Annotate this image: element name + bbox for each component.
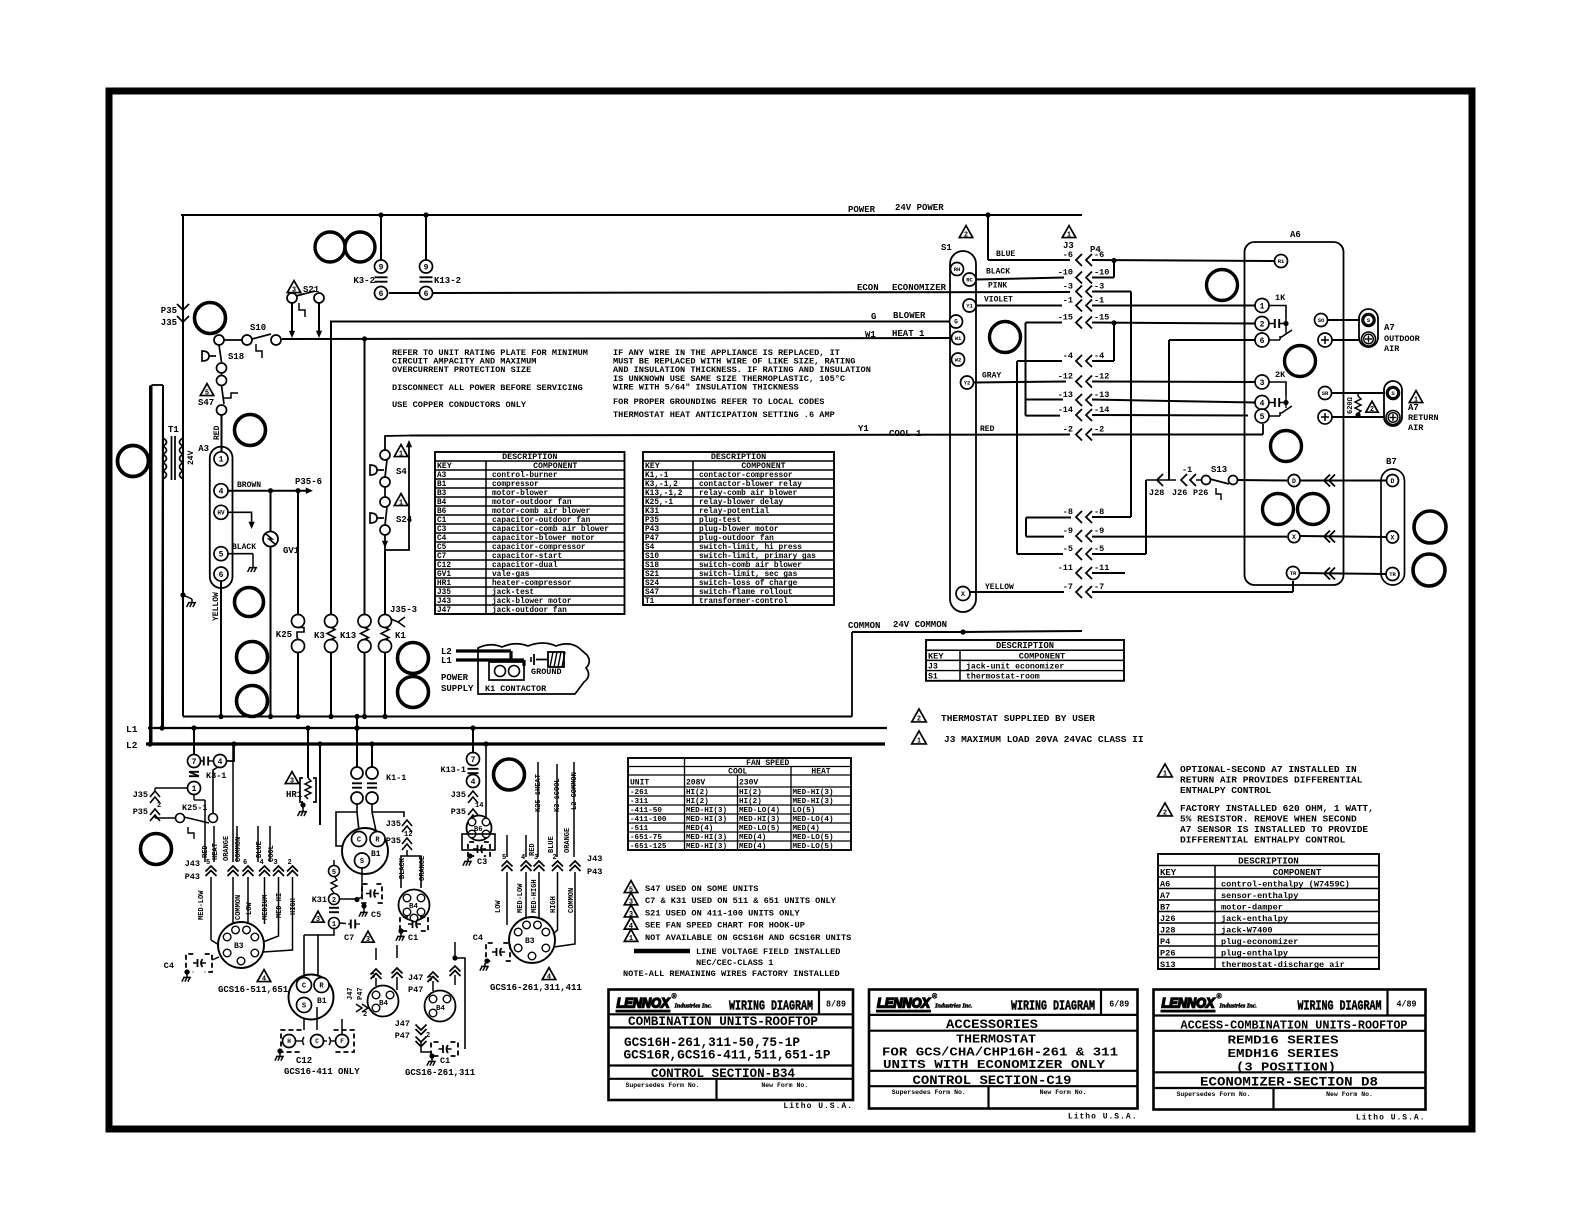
svg-text:HIGH: HIGH — [290, 898, 298, 915]
svg-text:MED-HI(3): MED-HI(3) — [686, 807, 727, 815]
svg-text:Industries Inc.: Industries Inc. — [674, 1003, 713, 1010]
svg-text:J47: J47 — [437, 607, 451, 615]
svg-text:USE COPPER CONDUCTORS ONLY: USE COPPER CONDUCTORS ONLY — [392, 400, 527, 410]
svg-text:capacitor-compressor: capacitor-compressor — [492, 544, 586, 552]
svg-text:-9: -9 — [1094, 526, 1104, 536]
svg-text:B3: B3 — [437, 490, 447, 498]
svg-text:plug-economizer: plug-economizer — [1221, 937, 1298, 947]
svg-text:C7 & K31 USED ON 511 & 651 UNI: C7 & K31 USED ON 511 & 651 UNITS ONLY — [645, 896, 837, 906]
svg-text:-15: -15 — [1094, 313, 1109, 323]
svg-text:1: 1 — [332, 921, 336, 929]
svg-text:jack-blower motor: jack-blower motor — [492, 598, 572, 606]
svg-text:HEAT: HEAT — [212, 843, 220, 860]
svg-text:L1: L1 — [441, 656, 452, 666]
svg-text:Y1: Y1 — [858, 424, 869, 434]
svg-text:J3 MAXIMUM LOAD 20VA 24VAC CLA: J3 MAXIMUM LOAD 20VA 24VAC CLASS II — [944, 734, 1144, 745]
svg-text:SR: SR — [1322, 390, 1329, 397]
svg-text:K3-1: K3-1 — [206, 771, 226, 781]
svg-text:switch-limit, primary gas: switch-limit, primary gas — [699, 553, 816, 561]
svg-text:B1: B1 — [437, 481, 447, 489]
svg-text:control-burner: control-burner — [492, 472, 558, 480]
svg-text:MED-HI(3): MED-HI(3) — [793, 789, 834, 797]
svg-text:2: 2 — [553, 854, 557, 862]
svg-text:HI(2): HI(2) — [739, 789, 762, 797]
svg-text:K13-1: K13-1 — [440, 765, 466, 775]
svg-text:WIRING DIAGRAM: WIRING DIAGRAM — [729, 999, 813, 1015]
svg-text:R1: R1 — [1278, 258, 1285, 265]
svg-text:HI(2): HI(2) — [686, 789, 709, 797]
svg-text:S21: S21 — [645, 571, 659, 579]
svg-text:L1: L1 — [126, 724, 138, 735]
svg-text:ECONOMIZER: ECONOMIZER — [892, 283, 947, 293]
svg-text:4/89: 4/89 — [1397, 1000, 1417, 1010]
svg-text:2: 2 — [426, 1032, 430, 1040]
svg-text:K13: K13 — [340, 631, 356, 641]
svg-text:J47: J47 — [408, 973, 423, 983]
svg-text:J26: J26 — [1172, 488, 1187, 498]
svg-text:C1: C1 — [437, 517, 447, 525]
svg-text:LENNOX: LENNOX — [1162, 995, 1217, 1011]
svg-text:S10: S10 — [250, 323, 266, 333]
svg-text:®: ® — [1217, 993, 1223, 1001]
svg-text:A3: A3 — [198, 444, 209, 454]
svg-text:TR: TR — [1389, 571, 1396, 578]
svg-text:7: 7 — [192, 758, 197, 767]
svg-text:switch-limit, hi press: switch-limit, hi press — [699, 544, 802, 552]
svg-text:SO: SO — [1318, 317, 1325, 324]
svg-text:ACCESSORIES: ACCESSORIES — [946, 1017, 1038, 1032]
svg-text:7: 7 — [471, 756, 476, 765]
svg-text:COMPONENT: COMPONENT — [1273, 868, 1322, 878]
svg-text:620Ω: 620Ω — [1347, 396, 1355, 414]
svg-text:J35: J35 — [437, 589, 451, 597]
svg-text:WIRE WITH 5/64" INSULATION THI: WIRE WITH 5/64" INSULATION THICKNESS — [613, 382, 799, 392]
svg-text:Industries Inc.: Industries Inc. — [1219, 1003, 1258, 1010]
svg-text:®: ® — [932, 993, 938, 1001]
svg-text:1: 1 — [1260, 302, 1265, 311]
svg-text:2: 2 — [1260, 320, 1265, 329]
svg-text:-7: -7 — [1063, 582, 1073, 592]
svg-text:LO(5): LO(5) — [793, 807, 816, 815]
svg-text:-311: -311 — [630, 798, 649, 806]
svg-text:K31: K31 — [645, 508, 659, 516]
svg-text:ACCESS-COMBINATION UNITS-ROOFT: ACCESS-COMBINATION UNITS-ROOFTOP — [1181, 1019, 1408, 1033]
svg-text:MED-LOW: MED-LOW — [517, 883, 525, 913]
svg-text:THERMOSTAT SUPPLIED BY USER: THERMOSTAT SUPPLIED BY USER — [941, 713, 1095, 724]
svg-text:6: 6 — [219, 571, 224, 580]
svg-text:COMMON: COMMON — [235, 837, 243, 862]
svg-text:GV1: GV1 — [437, 571, 451, 579]
svg-text:COMPONENT: COMPONENT — [1019, 651, 1065, 661]
svg-text:-1: -1 — [1063, 296, 1073, 306]
svg-text:S18: S18 — [645, 562, 659, 570]
svg-text:BLACK: BLACK — [232, 543, 256, 552]
svg-text:-7: -7 — [1094, 582, 1104, 592]
svg-text:MED-LO(5): MED-LO(5) — [739, 825, 780, 833]
svg-text:BLACK: BLACK — [986, 268, 1010, 277]
svg-text:RED: RED — [980, 425, 995, 434]
svg-text:sensor-enthalpy: sensor-enthalpy — [1221, 891, 1298, 901]
svg-text:2: 2 — [964, 231, 968, 239]
svg-text:motor-outdoor fan: motor-outdoor fan — [492, 499, 572, 507]
svg-text:B6: B6 — [474, 826, 482, 834]
svg-text:24V COMMON: 24V COMMON — [893, 620, 947, 630]
svg-text:K3-2: K3-2 — [353, 276, 375, 286]
svg-text:transformer-control: transformer-control — [699, 598, 788, 606]
svg-text:capacitor-start: capacitor-start — [492, 553, 562, 561]
svg-text:jack-unit economizer: jack-unit economizer — [966, 661, 1064, 671]
svg-text:G: G — [871, 312, 876, 322]
svg-text:A3: A3 — [437, 472, 447, 480]
svg-text:S47: S47 — [198, 398, 214, 408]
svg-text:DISCONNECT ALL POWER BEFORE SE: DISCONNECT ALL POWER BEFORE SERVICING — [392, 383, 583, 393]
svg-text:MED-HI(3): MED-HI(3) — [739, 816, 780, 824]
svg-text:RETURN AIR PROVIDES DIFFERENTI: RETURN AIR PROVIDES DIFFERENTIAL — [1180, 775, 1363, 786]
svg-text:1: 1 — [192, 785, 197, 794]
svg-text:C3: C3 — [437, 526, 447, 534]
svg-text:switch-comb air blower: switch-comb air blower — [699, 562, 802, 570]
svg-text:C: C — [357, 837, 361, 845]
svg-text:MED HI: MED HI — [276, 893, 284, 918]
svg-text:BROWN: BROWN — [237, 481, 261, 490]
svg-text:-12: -12 — [1058, 372, 1073, 382]
svg-text:COOL: COOL — [728, 768, 747, 777]
svg-text:GRAY: GRAY — [982, 372, 1001, 381]
svg-text:MED(4): MED(4) — [739, 843, 766, 851]
svg-text:RED: RED — [529, 843, 537, 856]
svg-text:RED: RED — [213, 425, 222, 440]
svg-text:-651-125: -651-125 — [630, 843, 667, 851]
svg-text:S1: S1 — [941, 243, 952, 253]
svg-text:2: 2 — [332, 897, 336, 905]
svg-text:COMPONENT: COMPONENT — [741, 462, 785, 471]
svg-text:K3: K3 — [314, 631, 325, 641]
svg-text:RC: RC — [966, 276, 973, 283]
svg-text:-651-75: -651-75 — [630, 834, 662, 842]
svg-text:1: 1 — [629, 935, 633, 943]
svg-text:208V: 208V — [686, 779, 705, 788]
svg-text:P35-6: P35-6 — [295, 477, 322, 487]
svg-text:K13,-1,2: K13,-1,2 — [645, 490, 683, 498]
svg-text:S18: S18 — [228, 352, 244, 362]
svg-text:GROUND: GROUND — [531, 667, 562, 677]
svg-text:-5: -5 — [1094, 544, 1104, 554]
svg-text:jack-test: jack-test — [492, 589, 534, 597]
svg-text:Litho U.S.A.: Litho U.S.A. — [783, 1102, 853, 1111]
svg-text:C12: C12 — [437, 562, 451, 570]
svg-text:Y2: Y2 — [964, 379, 971, 386]
svg-text:-4: -4 — [1094, 351, 1104, 361]
svg-text:C7: C7 — [344, 933, 354, 943]
svg-text:1: 1 — [917, 738, 921, 746]
svg-text:BLACK: BLACK — [399, 857, 407, 879]
svg-text:J47: J47 — [347, 987, 355, 1000]
svg-text:K13-2: K13-2 — [434, 276, 461, 286]
svg-text:MED-HI(3): MED-HI(3) — [686, 834, 727, 842]
svg-text:J43: J43 — [437, 598, 451, 606]
svg-text:motor-blower: motor-blower — [492, 490, 548, 498]
svg-text:MED-LO(4): MED-LO(4) — [793, 816, 834, 824]
svg-text:THERMOSTAT HEAT ANTICIPATION S: THERMOSTAT HEAT ANTICIPATION SETTING .6 … — [613, 410, 835, 420]
svg-text:TR: TR — [1290, 570, 1297, 577]
svg-text:COOL: COOL — [268, 845, 276, 862]
svg-text:KEY: KEY — [437, 462, 452, 471]
svg-text:4: 4 — [471, 778, 476, 787]
svg-text:S24: S24 — [645, 580, 659, 588]
svg-text:K3,-1,2: K3,-1,2 — [645, 481, 678, 489]
svg-text:relay-comb air blower: relay-comb air blower — [699, 490, 798, 498]
svg-text:vale-gas: vale-gas — [492, 571, 530, 579]
svg-text:New Form No.: New Form No. — [1040, 1089, 1087, 1096]
svg-text:5: 5 — [1260, 413, 1265, 422]
svg-text:COMMON: COMMON — [235, 895, 243, 920]
svg-text:WIRING DIAGRAM: WIRING DIAGRAM — [1298, 999, 1382, 1015]
svg-text:L2 COMMON: L2 COMMON — [571, 772, 579, 810]
svg-text:ORANGE: ORANGE — [564, 828, 572, 853]
svg-text:capacitor-comb air blower: capacitor-comb air blower — [492, 526, 609, 534]
svg-text:motor-comb air blower: motor-comb air blower — [492, 508, 591, 516]
svg-text:J43: J43 — [185, 859, 200, 869]
svg-text:J35: J35 — [133, 790, 148, 800]
svg-text:CONTROL SECTION-C19: CONTROL SECTION-C19 — [913, 1074, 1072, 1088]
svg-text:RED: RED — [202, 845, 210, 858]
svg-text:®: ® — [672, 993, 678, 1001]
svg-text:-10: -10 — [1058, 268, 1073, 278]
svg-text:BLUE: BLUE — [548, 836, 556, 853]
svg-text:C4: C4 — [164, 961, 174, 971]
svg-text:2: 2 — [917, 716, 921, 724]
svg-text:control-enthalpy (W7459C): control-enthalpy (W7459C) — [1221, 879, 1350, 889]
svg-text:12: 12 — [404, 831, 412, 839]
svg-text:5: 5 — [332, 869, 336, 877]
svg-text:MEDIUM: MEDIUM — [262, 895, 270, 920]
svg-text:4: 4 — [262, 975, 266, 983]
svg-text:-14: -14 — [1058, 405, 1073, 415]
svg-text:DESCRIPTION: DESCRIPTION — [502, 452, 557, 462]
svg-text:B6: B6 — [437, 508, 447, 516]
svg-text:L2: L2 — [126, 740, 138, 751]
svg-text:UNIT: UNIT — [630, 779, 649, 788]
svg-text:WIRING DIAGRAM: WIRING DIAGRAM — [1011, 999, 1095, 1015]
svg-text:-1: -1 — [1094, 296, 1104, 306]
svg-text:MED(4): MED(4) — [793, 825, 820, 833]
svg-text:W1: W1 — [865, 330, 876, 340]
svg-text:2K: 2K — [1275, 370, 1286, 380]
svg-text:J43: J43 — [587, 854, 602, 864]
svg-text:B4: B4 — [437, 499, 447, 507]
svg-text:MED-HIGH: MED-HIGH — [531, 879, 539, 913]
svg-text:S: S — [302, 1003, 306, 1011]
svg-text:MED-LO(4): MED-LO(4) — [739, 807, 780, 815]
svg-text:T1: T1 — [168, 425, 179, 435]
svg-text:S4: S4 — [396, 467, 407, 477]
svg-text:REMD16 SERIES: REMD16 SERIES — [1228, 1034, 1339, 1048]
svg-text:-2: -2 — [1063, 425, 1073, 435]
svg-text:-411-50: -411-50 — [630, 807, 662, 815]
svg-text:THERMOSTAT: THERMOSTAT — [956, 1033, 1036, 1047]
svg-text:8/89: 8/89 — [826, 1000, 846, 1010]
svg-text:A7: A7 — [1384, 323, 1395, 333]
svg-text:K31: K31 — [312, 895, 327, 905]
svg-text:OUTDOOR: OUTDOOR — [1384, 334, 1421, 344]
svg-text:K1,-1: K1,-1 — [645, 472, 669, 480]
svg-text:P47: P47 — [395, 1031, 410, 1041]
svg-text:KEY: KEY — [645, 462, 660, 471]
svg-text:SEE FAN SPEED CHART FOR HOOK-U: SEE FAN SPEED CHART FOR HOOK-UP — [645, 921, 805, 931]
svg-text:5: 5 — [219, 551, 224, 560]
svg-text:P47: P47 — [408, 985, 423, 995]
svg-text:HEAT 1: HEAT 1 — [892, 329, 925, 339]
svg-text:DESCRIPTION: DESCRIPTION — [1238, 855, 1299, 866]
svg-text:HI(2): HI(2) — [686, 798, 709, 806]
svg-text:POWER: POWER — [441, 673, 469, 683]
svg-text:2: 2 — [363, 1011, 367, 1019]
svg-text:MED-LOW: MED-LOW — [198, 890, 206, 920]
svg-text:K3-1COOL: K3-1COOL — [554, 778, 562, 812]
svg-text:J26: J26 — [1160, 914, 1175, 924]
svg-text:2: 2 — [157, 802, 161, 810]
svg-text:6/89: 6/89 — [1109, 1000, 1129, 1010]
svg-text:HV: HV — [217, 509, 225, 516]
svg-text:DESCRIPTION: DESCRIPTION — [996, 641, 1054, 651]
svg-text:1K: 1K — [1275, 293, 1286, 303]
svg-text:H: H — [287, 1038, 291, 1045]
svg-text:LOW: LOW — [246, 902, 254, 915]
svg-text:A7: A7 — [1408, 403, 1419, 413]
svg-text:D: D — [1391, 478, 1395, 485]
svg-text:S1: S1 — [928, 673, 938, 682]
svg-text:-11: -11 — [1058, 563, 1073, 573]
svg-text:230V: 230V — [739, 779, 758, 788]
svg-text:C4: C4 — [473, 933, 483, 943]
svg-text:LENNOX: LENNOX — [877, 995, 932, 1011]
svg-text:NEC/CEC-CLASS 1: NEC/CEC-CLASS 1 — [696, 958, 773, 968]
svg-text:VIOLET: VIOLET — [984, 296, 1013, 305]
svg-text:C3: C3 — [477, 857, 487, 867]
svg-text:FOR PROPER GROUNDING REFER TO: FOR PROPER GROUNDING REFER TO LOCAL CODE… — [613, 397, 824, 407]
svg-text:NOTE-ALL REMAINING WIRES FACTO: NOTE-ALL REMAINING WIRES FACTORY INSTALL… — [623, 969, 840, 979]
svg-text:Litho U.S.A.: Litho U.S.A. — [1356, 1114, 1426, 1123]
svg-text:YELLOW: YELLOW — [985, 583, 1014, 592]
svg-text:ECON: ECON — [857, 283, 879, 293]
svg-text:plug-blower motor: plug-blower motor — [699, 526, 779, 534]
svg-text:ENTHALPY CONTROL: ENTHALPY CONTROL — [1180, 785, 1272, 796]
svg-text:A6: A6 — [1290, 230, 1301, 240]
svg-text:2: 2 — [1163, 810, 1167, 818]
svg-text:J35: J35 — [386, 819, 401, 829]
svg-text:C1: C1 — [408, 933, 418, 943]
svg-text:P43: P43 — [645, 526, 659, 534]
svg-text:-5: -5 — [1063, 544, 1073, 554]
svg-text:1: 1 — [1067, 231, 1071, 239]
svg-text:K25-1: K25-1 — [182, 803, 208, 813]
svg-text:Supersedes Form No.: Supersedes Form No. — [1176, 1091, 1250, 1098]
svg-text:ECONOMIZER-SECTION D8: ECONOMIZER-SECTION D8 — [1200, 1076, 1378, 1090]
svg-text:KEY: KEY — [1160, 868, 1177, 878]
svg-text:P35: P35 — [645, 517, 659, 525]
svg-text:OPTIONAL-SECOND A7 INSTALLED I: OPTIONAL-SECOND A7 INSTALLED IN — [1180, 764, 1357, 775]
svg-text:A6: A6 — [1160, 879, 1170, 889]
svg-text:BLUE: BLUE — [996, 250, 1015, 259]
svg-text:B4: B4 — [379, 1000, 389, 1008]
svg-text:NOT AVAILABLE ON GCS16H AND GC: NOT AVAILABLE ON GCS16H AND GCS16R UNITS — [645, 933, 851, 943]
svg-text:K1 CONTACTOR: K1 CONTACTOR — [485, 684, 547, 694]
svg-text:relay-potential: relay-potential — [699, 508, 770, 516]
svg-text:Industries Inc.: Industries Inc. — [934, 1003, 973, 1010]
svg-text:switch-flame rollout: switch-flame rollout — [699, 589, 793, 597]
svg-text:4: 4 — [219, 488, 224, 497]
svg-text:ORANGE: ORANGE — [223, 836, 231, 861]
svg-text:B7: B7 — [1386, 457, 1397, 467]
svg-text:K25-1HEAT: K25-1HEAT — [535, 774, 543, 812]
svg-text:6: 6 — [424, 290, 429, 299]
svg-text:3: 3 — [371, 973, 375, 981]
svg-text:S4: S4 — [645, 544, 655, 552]
svg-text:S21 USED ON 411-100 UNITS ONLY: S21 USED ON 411-100 UNITS ONLY — [645, 908, 801, 918]
svg-text:-13: -13 — [1094, 390, 1109, 400]
svg-text:capacitor-outdoor fan: capacitor-outdoor fan — [492, 517, 591, 525]
svg-text:plug-test: plug-test — [699, 517, 741, 525]
svg-text:MED(4): MED(4) — [686, 825, 713, 833]
svg-text:P43: P43 — [587, 867, 602, 877]
svg-text:S: S — [360, 858, 364, 866]
svg-text:S47 USED ON SOME UNITS: S47 USED ON SOME UNITS — [645, 884, 758, 894]
svg-text:3: 3 — [366, 936, 370, 944]
svg-text:HR1: HR1 — [437, 580, 451, 588]
svg-text:J35: J35 — [161, 318, 177, 328]
svg-text:4: 4 — [1260, 399, 1265, 408]
svg-text:4: 4 — [521, 854, 525, 862]
svg-text:jack-enthalpy: jack-enthalpy — [1221, 914, 1288, 924]
svg-text:3: 3 — [1260, 379, 1265, 388]
svg-text:switch-limit, sec gas: switch-limit, sec gas — [699, 571, 798, 579]
svg-text:J28: J28 — [1160, 925, 1175, 935]
svg-text:LINE VOLTAGE FIELD INSTALLED: LINE VOLTAGE FIELD INSTALLED — [696, 947, 840, 957]
svg-text:A7 SENSOR IS INSTALLED TO PROV: A7 SENSOR IS INSTALLED TO PROVIDE — [1180, 824, 1368, 835]
svg-text:FACTORY INSTALLED 620 OHM, 1 W: FACTORY INSTALLED 620 OHM, 1 WATT, — [1180, 803, 1374, 814]
svg-text:T1: T1 — [645, 598, 655, 606]
svg-text:switch-loss of charge: switch-loss of charge — [699, 580, 798, 588]
svg-text:capacitor-dual: capacitor-dual — [492, 562, 558, 570]
svg-text:1: 1 — [1163, 771, 1167, 779]
svg-text:B4: B4 — [409, 903, 419, 911]
svg-text:LENNOX: LENNOX — [617, 995, 672, 1011]
svg-text:MED(4): MED(4) — [739, 834, 766, 842]
svg-text:24V POWER: 24V POWER — [895, 203, 944, 213]
svg-text:-10: -10 — [1094, 268, 1109, 278]
svg-text:4: 4 — [260, 859, 264, 867]
svg-text:-6: -6 — [1063, 250, 1073, 260]
svg-text:-8: -8 — [1094, 507, 1104, 517]
svg-text:jack-W7400: jack-W7400 — [1221, 925, 1273, 935]
svg-text:New Form No.: New Form No. — [761, 1082, 808, 1089]
svg-text:5: 5 — [206, 859, 210, 867]
svg-text:5: 5 — [205, 389, 209, 397]
svg-text:J3: J3 — [928, 662, 938, 671]
svg-text:5% RESISTOR. REMOVE WHEN SECON: 5% RESISTOR. REMOVE WHEN SECOND — [1180, 814, 1357, 825]
svg-text:Litho U.S.A.: Litho U.S.A. — [1068, 1113, 1138, 1122]
svg-text:S13: S13 — [1211, 465, 1227, 475]
svg-text:-261: -261 — [630, 789, 649, 797]
svg-text:S10: S10 — [645, 553, 659, 561]
svg-text:jack-outdoor fan: jack-outdoor fan — [492, 607, 567, 615]
svg-text:P47: P47 — [357, 987, 365, 1000]
svg-text:6: 6 — [243, 859, 247, 867]
svg-text:motor-damper: motor-damper — [1221, 902, 1283, 912]
svg-text:GCS16-261,311,411: GCS16-261,311,411 — [490, 983, 582, 993]
svg-text:S47: S47 — [645, 589, 659, 597]
svg-text:P43: P43 — [185, 872, 200, 882]
